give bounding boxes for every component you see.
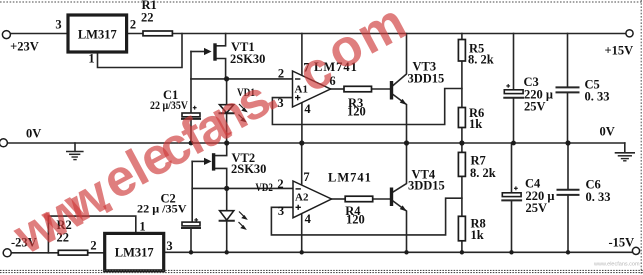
svg-text:3DD15: 3DD15 (408, 72, 445, 86)
svg-text:2: 2 (278, 67, 284, 81)
svg-text:25V: 25V (526, 201, 548, 215)
svg-text:A2: A2 (295, 192, 309, 204)
svg-text:4: 4 (305, 212, 312, 226)
svg-text:0. 33: 0. 33 (586, 190, 611, 204)
svg-text:4: 4 (304, 102, 311, 116)
svg-text:2SK30: 2SK30 (230, 52, 265, 66)
svg-text:-15V: -15V (609, 235, 635, 249)
svg-text:1: 1 (139, 220, 145, 234)
svg-text:2SK30: 2SK30 (231, 162, 266, 176)
svg-text:7: 7 (303, 170, 309, 184)
svg-text:0V: 0V (26, 126, 41, 140)
svg-text:LM317: LM317 (115, 246, 154, 260)
svg-text:3: 3 (278, 204, 284, 218)
svg-text:3: 3 (166, 239, 172, 253)
svg-text:3: 3 (55, 17, 61, 31)
svg-text:LM741: LM741 (328, 171, 372, 185)
svg-text:0V: 0V (600, 125, 615, 139)
svg-text:+23V: +23V (10, 40, 39, 54)
svg-text:8. 2k: 8. 2k (470, 166, 496, 180)
svg-text:www.elecfans.com: www.elecfans.com (593, 262, 640, 268)
svg-text:120: 120 (347, 105, 366, 119)
svg-text:120: 120 (346, 213, 365, 227)
svg-text:+15V: +15V (605, 44, 634, 58)
svg-text:LM317: LM317 (78, 27, 117, 41)
svg-text:0. 33: 0. 33 (585, 90, 610, 104)
svg-text:8. 2k: 8. 2k (468, 53, 494, 67)
svg-text:22 μ /35V: 22 μ /35V (137, 204, 187, 216)
svg-text:3DD15: 3DD15 (408, 179, 445, 193)
svg-text:22: 22 (141, 11, 154, 25)
svg-text:1k: 1k (469, 117, 482, 131)
svg-text:2: 2 (130, 17, 136, 31)
svg-text:1: 1 (88, 52, 94, 66)
svg-text:2: 2 (277, 177, 283, 191)
svg-text:25V: 25V (524, 100, 546, 114)
svg-text:www.elecfans.com: www.elecfans.com (0, 0, 423, 267)
svg-text:1k: 1k (471, 228, 484, 242)
svg-text:VD2: VD2 (255, 182, 273, 194)
svg-text:2: 2 (90, 238, 96, 252)
